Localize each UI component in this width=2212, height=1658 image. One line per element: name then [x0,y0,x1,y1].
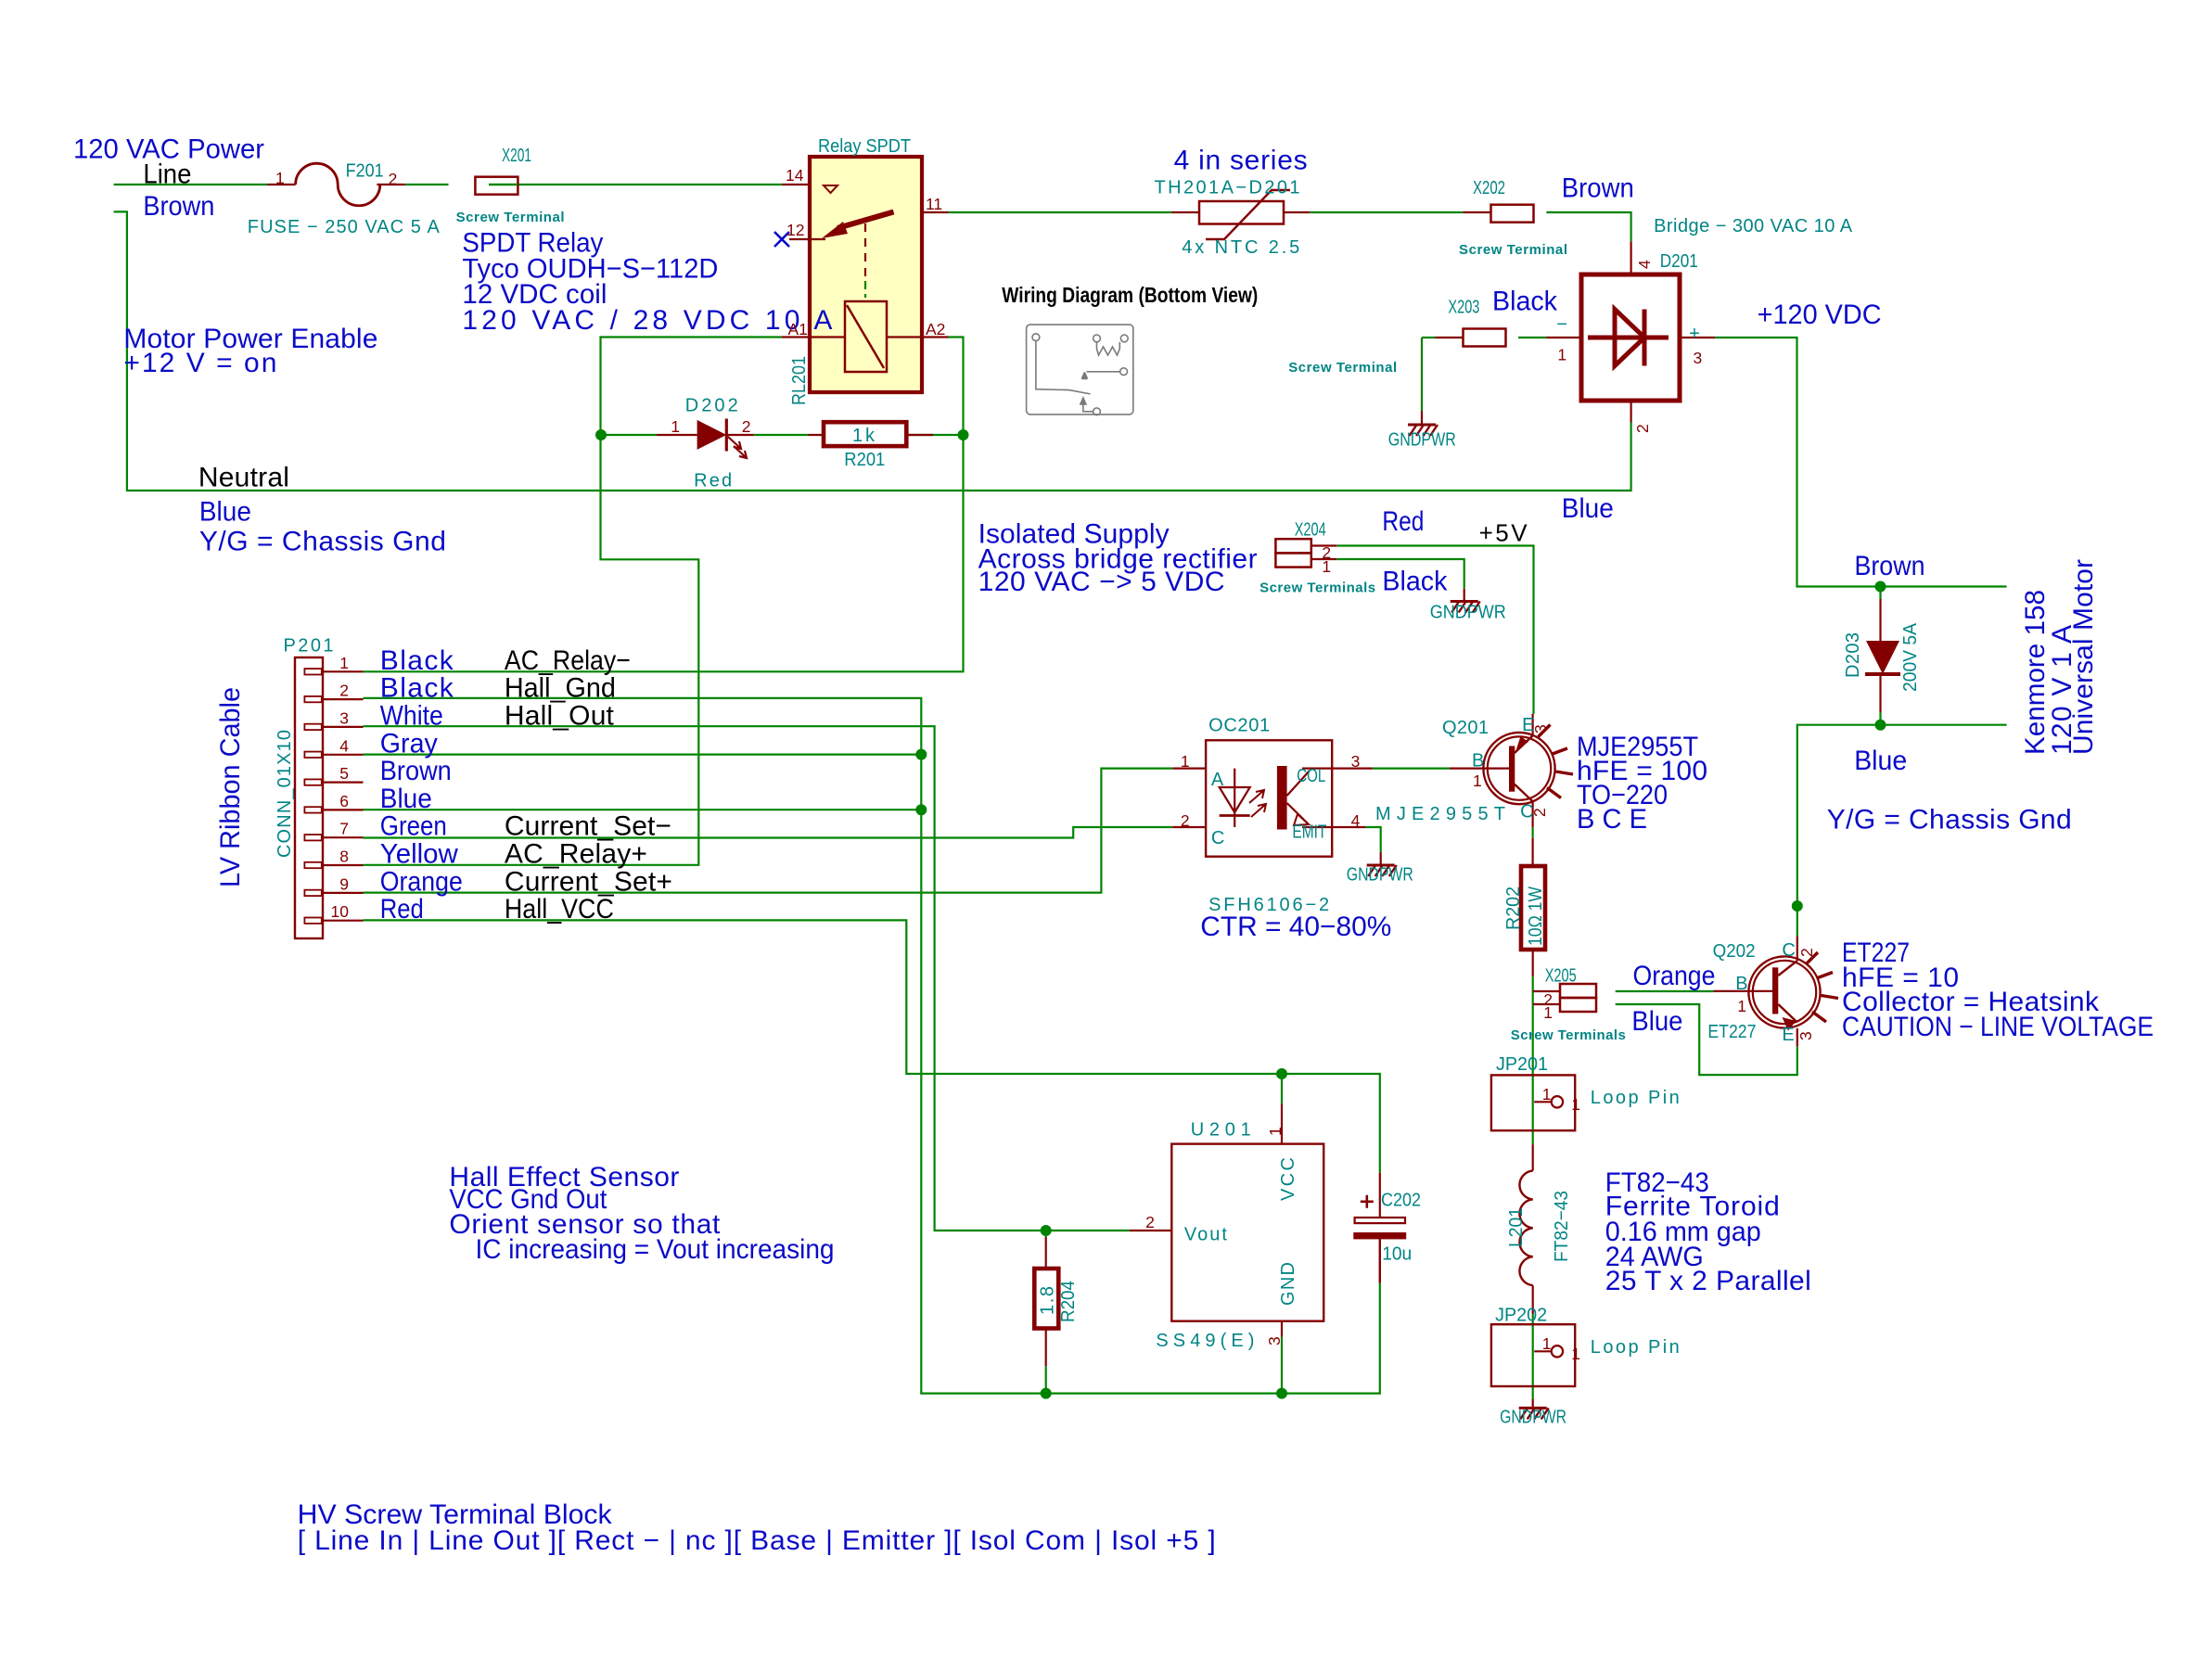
svg-text:JP202: JP202 [1495,1306,1547,1326]
optocoupler OC201 SFH6106-2 [1172,767,1206,769]
svg-text:2: 2 [1181,811,1190,830]
svg-text:D201: D201 [1660,251,1698,272]
relay switch blade [837,212,894,229]
svg-text:6: 6 [339,792,349,810]
svg-text:Vout: Vout [1184,1225,1227,1245]
svg-text:A: A [1211,770,1224,790]
svg-text:Black: Black [380,645,454,676]
svg-text:1: 1 [339,654,349,672]
svg-text:Brown: Brown [1562,173,1634,204]
wire X203 left stub [1422,337,1436,338]
svg-text:X201: X201 [502,146,531,166]
wire motor Blue to Q202 collector [1797,725,2007,937]
svg-text:14: 14 [786,166,804,185]
P201 pin 2 [304,696,321,702]
svg-text:CONN_01X10: CONN_01X10 [275,730,295,858]
svg-text:+5V: +5V [1479,518,1528,546]
junction R204/GND rail [1041,1388,1052,1399]
P201 pin 3 [304,724,321,730]
relay RL201 body [810,157,922,392]
svg-text:Blue: Blue [1854,746,1907,776]
svg-text:−: − [1556,314,1567,335]
svg-text:Screw Terminals: Screw Terminals [1259,580,1375,595]
svg-text:Orange: Orange [380,866,463,897]
ground GNDPWR (X204) [1451,602,1480,613]
svg-text:1: 1 [1181,752,1190,771]
svg-text:EMIT: EMIT [1292,822,1326,842]
svg-text:4: 4 [1351,811,1361,830]
svg-text:1: 1 [1542,1085,1552,1103]
svg-text:E: E [1782,1025,1794,1045]
relay mechanical dashed link [864,223,866,281]
svg-text:C202: C202 [1381,1191,1421,1211]
svg-text:2: 2 [742,417,751,436]
wire relay pin11 to NTC [949,211,1172,213]
wire X205 pin2 to Q202 base Orange [1616,990,1714,992]
svg-text:GNDPWR: GNDPWR [1500,1408,1566,1428]
wire X204 pin1 to GNDPWR [1336,559,1464,589]
svg-text:CTR = 40−80%: CTR = 40−80% [1200,912,1391,942]
svg-text:4 in series: 4 in series [1174,145,1308,175]
svg-text:Brown: Brown [143,191,214,222]
svg-text:Yellow: Yellow [380,839,458,870]
LED D202 [657,434,697,436]
relay pin 14 [782,184,810,185]
svg-text:B: B [1735,974,1747,994]
wire X204 pin2 +5V to Q201 emitter [1336,546,1533,714]
svg-text:1: 1 [1571,1095,1580,1114]
svg-text:C: C [1211,828,1224,848]
svg-text:B: B [1472,751,1484,772]
wire OC201 COL to Q201 base [1373,767,1450,769]
transistor Q202 ET227 [1714,990,1773,992]
wire relay A2 to P201 pin1 AC_Relay- [364,338,964,672]
svg-text:LV Ribbon Cable: LV Ribbon Cable [215,687,246,887]
svg-text:FUSE − 250 VAC 5 A: FUSE − 250 VAC 5 A [248,217,441,237]
svg-text:Line: Line [143,159,191,190]
svg-text:VCC: VCC [1278,1157,1298,1201]
wire OC201 anode to P201 pin9 Current_Set+ [364,769,1173,893]
svg-text:3: 3 [1796,1031,1815,1040]
svg-text:Red: Red [1382,506,1424,537]
svg-text:Black: Black [380,673,454,704]
wire X201 to relay pin14 [489,184,782,185]
P201 pin 6 [304,807,321,812]
svg-text:AC_Relay+: AC_Relay+ [505,839,647,870]
wire U201 GND pin to rail [1281,1337,1283,1394]
svg-text:200V 5A: 200V 5A [1900,622,1921,692]
svg-text:X203: X203 [1448,298,1479,318]
ground GNDPWR (X203) [1408,425,1438,436]
ground GNDPWR (OC201) [1367,865,1397,876]
svg-text:X202: X202 [1473,178,1505,198]
svg-text:1: 1 [1542,1334,1552,1353]
svg-text:9: 9 [339,874,349,893]
wire P201 pin10 Hall_VCC to U201/C202 [364,920,1380,1172]
wire D203 cathode to Blue [1879,712,1881,725]
svg-text:2: 2 [1530,808,1549,817]
svg-text:Bridge − 300 VAC 10 A: Bridge − 300 VAC 10 A [1654,216,1853,236]
diode D203 [1879,599,1881,641]
svg-text:Y/G = Chassis Gnd: Y/G = Chassis Gnd [1827,805,2072,835]
wire Q201 collector to R202 [1531,827,1533,838]
svg-text:ET227: ET227 [1707,1022,1756,1042]
wire P201 pin6 Blue to Hall_Gnd [364,809,922,810]
relay pin 12 [789,238,825,240]
bridge rectifier D201 [1630,241,1631,274]
screw terminal X201 [475,177,518,195]
junction Blue/D203 [1875,720,1886,731]
svg-text:8: 8 [339,848,349,866]
svg-text:D203: D203 [1843,632,1863,678]
svg-text:Brown: Brown [380,756,452,786]
svg-text:TH201A−D201: TH201A−D201 [1155,177,1300,198]
P201 pin 7 [304,835,321,840]
svg-text:1: 1 [1557,346,1566,364]
wire OC201 EMIT to GNDPWR [1365,827,1380,852]
svg-text:2: 2 [1797,948,1816,957]
svg-text:Gray: Gray [380,728,438,759]
wire R201 to A2 drop [906,434,963,436]
wire fuse to X201 [405,184,449,185]
OC201 light arrows [1249,790,1264,803]
svg-text:Screw Terminal: Screw Terminal [1459,242,1567,258]
svg-text:Wiring Diagram (Bottom View): Wiring Diagram (Bottom View) [1002,283,1258,307]
P201 pin 1 [304,669,321,674]
resistor R201 1k [809,434,825,436]
svg-text:R201: R201 [844,450,885,470]
svg-text:Q202: Q202 [1713,941,1756,962]
svg-text:+12 V = on: +12 V = on [123,348,276,378]
resistor R204 1.8 [1045,1237,1047,1269]
svg-text:25 T x 2 Parallel: 25 T x 2 Parallel [1605,1266,1811,1296]
wire P201 pin4 Gray to Hall_Gnd [364,753,922,755]
wire C202 minus to rail [1379,1239,1381,1282]
wire X202 to bridge pin4 [1546,212,1630,241]
screw terminal X203 [1464,329,1506,347]
capacitor C202 10u [1379,1173,1381,1218]
svg-text:Green: Green [380,811,447,842]
ground GNDPWR (JP202) [1519,1408,1549,1419]
junction Gray/Hall_Gnd [915,749,927,760]
wire P201 pin3 Hall_Out to U201 Vout [364,726,1131,1231]
svg-text:1: 1 [1737,997,1746,1015]
svg-text:12: 12 [786,221,804,239]
svg-text:10: 10 [331,902,350,921]
svg-text:Screw Terminal: Screw Terminal [1288,360,1397,376]
wire R204 bottom to rail [1045,1366,1047,1393]
svg-text:GNDPWR: GNDPWR [1347,865,1413,886]
junction R201/A2 [958,429,969,440]
svg-text:1: 1 [1322,557,1331,576]
svg-text:Screw Terminal: Screw Terminal [456,210,565,225]
svg-text:Current_Set+: Current_Set+ [505,866,672,897]
wire L201 to JP202 GNDPWR [1532,1314,1534,1399]
fuse F201 [268,184,296,185]
Q202 heatsink ticks [1806,952,1838,1022]
svg-text:R202: R202 [1503,886,1524,930]
svg-text:2: 2 [389,170,398,188]
svg-text:GNDPWR: GNDPWR [1388,430,1456,451]
junction Vout/R204 [1041,1225,1052,1236]
wire R202 to X205/JP201/L201 [1532,976,1534,1144]
svg-text:GND: GND [1278,1262,1298,1306]
OC201 LED [1234,769,1235,827]
wire NTC to X202 [1310,211,1463,213]
svg-text:4: 4 [339,736,349,755]
svg-text:11: 11 [926,195,942,213]
junction A1/D202 [595,429,607,440]
P201 pin 5 [304,779,321,784]
svg-text:1: 1 [1266,1127,1285,1136]
svg-text:Red: Red [694,471,732,491]
svg-text:Black: Black [1492,287,1558,317]
svg-text:R204: R204 [1058,1281,1079,1322]
relay pin A2 [887,336,949,338]
wire +120VDC to motor Brown [1715,338,2007,587]
svg-text:CAUTION − LINE VOLTAGE: CAUTION − LINE VOLTAGE [1842,1012,2154,1042]
svg-text:X205: X205 [1545,965,1577,986]
screw terminal X204 [1275,539,1311,553]
svg-text:A2: A2 [926,320,945,338]
svg-text:Neutral: Neutral [198,462,289,492]
svg-text:3: 3 [339,708,349,727]
svg-text:Red: Red [380,894,424,925]
svg-text:2: 2 [1145,1213,1155,1231]
svg-text:Y/G = Chassis Gnd: Y/G = Chassis Gnd [199,527,446,557]
no-connect X on pin 12 [774,232,789,247]
svg-text:F201: F201 [346,160,384,181]
svg-text:Hall_Gnd: Hall_Gnd [505,673,616,704]
svg-text:1: 1 [1543,1003,1553,1022]
wire relay A1 to P201 pin8 AC_Relay+ [364,338,783,865]
wire junction to R204 top [1045,1231,1047,1237]
svg-text:3: 3 [1531,724,1550,733]
svg-text:A1: A1 [788,320,808,338]
svg-text:GNDPWR: GNDPWR [1430,603,1506,623]
svg-text:2: 2 [339,682,349,700]
OC201 phototransistor [1277,766,1287,830]
svg-text:L201: L201 [1506,1207,1527,1247]
wire X203 down to GNDPWR [1421,338,1423,411]
svg-text:X204: X204 [1295,520,1326,541]
svg-text:Screw Terminals: Screw Terminals [1511,1027,1626,1043]
svg-text:10u: 10u [1382,1244,1412,1265]
svg-text:Q201: Q201 [1442,718,1489,738]
svg-text:Loop Pin: Loop Pin [1591,1088,1680,1108]
svg-text:1.8: 1.8 [1038,1286,1058,1315]
svg-text:JP201: JP201 [1496,1054,1548,1075]
IC U201 SS49(E) hall sensor [1281,1103,1283,1143]
relay coil box [845,301,887,372]
svg-text:2: 2 [1633,424,1652,433]
screw terminal X205 [1560,984,1596,998]
svg-text:+120 VDC: +120 VDC [1758,300,1882,330]
svg-text:+: + [1689,324,1700,344]
wire junction to D202 anode [601,434,657,436]
svg-text:1: 1 [1571,1345,1580,1363]
svg-text:C: C [1782,940,1795,961]
wire to U201 VCC pin [1281,1074,1283,1103]
svg-text:3: 3 [1351,752,1361,771]
svg-text:B C E: B C E [1577,804,1647,835]
svg-text:Hall_VCC: Hall_VCC [505,894,614,925]
svg-text:D202: D202 [685,396,738,416]
svg-text:3: 3 [1265,1336,1284,1346]
wire OC201 cathode to P201 pin7 Current_Set- [364,827,1173,838]
svg-text:120 VAC −> 5 VDC: 120 VAC −> 5 VDC [978,567,1225,597]
svg-text:1: 1 [275,169,285,187]
svg-text:7: 7 [339,820,349,838]
svg-text:1: 1 [671,417,680,436]
junction Blue/Hall_Gnd [915,804,927,815]
svg-text:Loop Pin: Loop Pin [1591,1337,1680,1358]
svg-text:4x NTC 2.5: 4x NTC 2.5 [1182,237,1299,258]
svg-text:Blue: Blue [1562,493,1614,524]
svg-text:[ Line In | Line Out ][ Rect −: [ Line In | Line Out ][ Rect − | nc ][ B… [298,1525,1216,1556]
wire D202 cathode to R201 [754,434,809,436]
svg-text:1: 1 [1473,772,1482,790]
junction VCC/C202 [1276,1068,1287,1079]
svg-text:3: 3 [1694,349,1703,367]
svg-text:Relay SPDT: Relay SPDT [818,136,911,157]
relay pin A1 [782,336,845,338]
junction U201 GND/rail [1276,1388,1287,1399]
svg-text:Blue: Blue [1631,1006,1682,1037]
jumper JP201 loop pin [1491,1075,1575,1130]
svg-text:White: White [380,700,443,731]
svg-text:IC increasing = Vout increasin: IC increasing = Vout increasing [476,1234,835,1265]
svg-text:AC_Relay−: AC_Relay− [505,645,631,676]
relay pin 11 [922,211,949,213]
svg-text:OC201: OC201 [1208,716,1270,736]
connector P201 CONN_01X10 [295,657,323,938]
svg-text:4: 4 [1635,260,1654,269]
P201 pin 8 [304,862,321,868]
junction Blue/Q202 collector [1792,900,1803,912]
jumper JP202 loop pin [1491,1324,1575,1386]
svg-text:COL: COL [1297,766,1325,786]
wire P201 pin2 Hall_Gnd rail [364,698,1380,1394]
svg-text:Brown: Brown [1855,551,1925,581]
wire junction to D203 anode [1879,587,1881,600]
wire Line in to fuse [114,184,268,185]
resistor R202 10ohm 1W [1531,838,1533,866]
svg-text:5: 5 [339,764,349,783]
junction Brown/D203 [1875,581,1886,593]
P201 pin 4 [304,752,321,758]
thermistor TH201A-D201 [1171,211,1199,213]
svg-text:Current_Set−: Current_Set− [505,811,671,842]
svg-text:Hall_Out: Hall_Out [505,700,615,731]
transistor Q201 MJE2955T [1450,767,1510,769]
svg-text:Universal Motor: Universal Motor [2068,559,2099,755]
P201 pin 9 [304,890,321,896]
svg-text:10Ω 1W: 10Ω 1W [1526,886,1546,946]
Q201 heatsink ticks [1539,725,1574,798]
svg-text:FT82−43: FT82−43 [1552,1191,1572,1262]
wiring diagram inset box [1027,325,1133,414]
svg-text:Blue: Blue [199,497,251,528]
screw terminal X202 [1491,205,1534,223]
svg-text:Orange: Orange [1633,961,1716,991]
wire X205 pin1 to Q202 emitter Blue [1616,1004,1797,1075]
P201 pin 10 [304,918,321,924]
svg-text:Blue: Blue [380,784,432,814]
wire Neutral run to bridge pin2 [114,211,1631,491]
wire X203 to bridge pin1 [1518,337,1546,338]
svg-text:RL201: RL201 [789,356,810,405]
inductor L201 FT82-43 [1532,1144,1534,1170]
svg-text:Black: Black [1382,567,1448,597]
